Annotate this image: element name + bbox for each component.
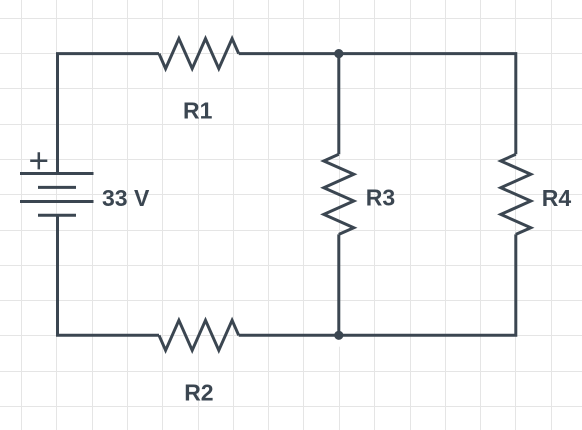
battery plate long xyxy=(20,200,94,203)
battery V1 (33 V source) xyxy=(20,152,94,215)
svg-text:R3: R3 xyxy=(366,185,395,211)
wire top node to top-right corner, down to R4 xyxy=(339,54,516,155)
svg-text:R4: R4 xyxy=(542,185,572,211)
svg-text:R1: R1 xyxy=(183,97,213,123)
wire left-top (battery + terminal up to top-left corner, then right to R1) xyxy=(58,54,160,174)
node halo (white casing of junction B) xyxy=(327,324,350,347)
node halo (white casing of junction A) xyxy=(327,42,350,65)
node B (bottom junction) xyxy=(334,331,343,340)
svg-text:33 V: 33 V xyxy=(102,185,150,211)
resistor R4 xyxy=(501,154,531,234)
wire R2 to bottom-left corner, up to battery - terminal xyxy=(58,215,160,335)
svg-text:R2: R2 xyxy=(184,380,213,406)
resistor R3 xyxy=(324,154,354,234)
wire top node down to R3 xyxy=(337,54,340,155)
wire bottom node to R2 xyxy=(239,334,339,337)
resistor R2 xyxy=(159,320,239,350)
resistor R1 xyxy=(159,39,239,69)
wire R4 to bottom-right corner, left to bottom node xyxy=(339,234,516,335)
battery plate short xyxy=(38,186,76,189)
plus sign xyxy=(30,152,47,169)
node A (top junction) xyxy=(334,49,343,58)
wire R1 to top node xyxy=(239,52,339,55)
battery plate short (-) bottom xyxy=(38,214,76,217)
wire R3 to bottom node xyxy=(337,234,340,335)
battery plate long (+) top xyxy=(20,172,94,175)
